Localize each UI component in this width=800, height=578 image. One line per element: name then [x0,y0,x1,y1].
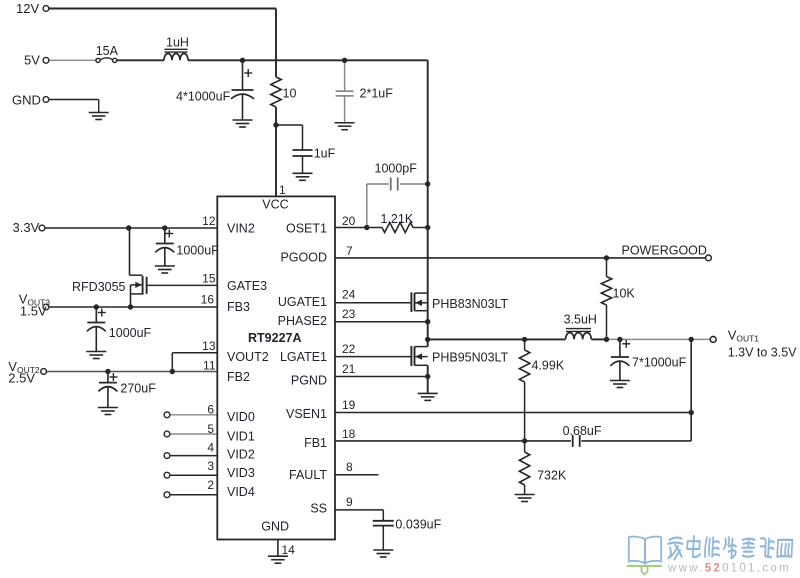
svg-text:POWERGOOD: POWERGOOD [622,244,707,258]
svg-text:GATE3: GATE3 [227,279,267,293]
svg-text:16: 16 [201,293,215,307]
svg-text:2: 2 [207,478,214,492]
svg-text:0.039uF: 0.039uF [395,518,441,532]
svg-text:1000uF: 1000uF [109,326,152,340]
svg-text:FB2: FB2 [227,370,250,384]
svg-text:2*1uF: 2*1uF [360,87,394,101]
svg-text:VOUT2: VOUT2 [227,350,269,364]
svg-text:RT9227A: RT9227A [248,331,302,345]
svg-text:3.5uH: 3.5uH [564,313,597,327]
svg-text:5V: 5V [24,53,40,68]
svg-text:7*1000uF: 7*1000uF [632,356,687,370]
svg-text:18: 18 [342,427,356,441]
svg-text:15: 15 [202,272,216,286]
svg-text:14: 14 [282,543,296,557]
svg-text:19: 19 [342,398,356,412]
svg-text:5: 5 [207,422,214,436]
svg-text:9: 9 [346,495,353,509]
svg-text:7: 7 [346,244,353,258]
svg-text:3: 3 [207,459,214,473]
svg-text:4: 4 [207,441,214,455]
svg-text:270uF: 270uF [120,382,156,396]
svg-text:GND: GND [261,520,289,534]
svg-text:GND: GND [12,93,41,108]
svg-text:2.5V: 2.5V [8,371,35,386]
svg-text:VCC: VCC [262,198,288,212]
svg-text:10K: 10K [613,287,636,301]
svg-text:732K: 732K [537,469,567,483]
svg-text:15A: 15A [96,44,119,58]
svg-text:FAULT: FAULT [289,468,327,482]
svg-text:23: 23 [342,307,356,321]
svg-text:21: 21 [342,362,356,376]
svg-text:10: 10 [283,87,297,101]
svg-text:LGATE1: LGATE1 [280,350,327,364]
svg-text:VSEN1: VSEN1 [286,407,327,421]
svg-text:24: 24 [342,288,356,302]
svg-text:VID0: VID0 [227,410,255,424]
svg-text:1uH: 1uH [166,36,189,50]
svg-text:3.3V: 3.3V [13,220,40,235]
svg-text:4*1000uF: 4*1000uF [176,90,231,104]
svg-text:13: 13 [202,339,216,353]
svg-text:1: 1 [279,183,286,197]
svg-text:1uF: 1uF [314,147,336,161]
svg-text:6: 6 [207,403,214,417]
svg-text:1.5V: 1.5V [20,304,47,319]
svg-text:8: 8 [346,460,353,474]
svg-text:VID2: VID2 [227,448,255,462]
svg-text:PHB83N03LT: PHB83N03LT [432,297,509,311]
svg-text:SS: SS [310,502,327,516]
svg-text:11: 11 [203,359,216,373]
svg-text:22: 22 [342,342,356,356]
svg-text:RFD3055: RFD3055 [72,280,126,294]
svg-text:OSET1: OSET1 [286,222,327,236]
svg-text:FB1: FB1 [304,436,327,450]
svg-text:VID3: VID3 [227,466,255,480]
svg-text:VID1: VID1 [227,430,255,444]
svg-text:1000pF: 1000pF [375,162,418,176]
svg-text:PGND: PGND [291,374,327,388]
svg-text:0.68uF: 0.68uF [563,424,602,438]
svg-text:UGATE1: UGATE1 [278,295,327,309]
svg-text:VID4: VID4 [227,485,255,499]
svg-text:20: 20 [342,214,356,228]
svg-text:4.99K: 4.99K [532,359,565,373]
svg-text:12: 12 [202,214,216,228]
svg-text:12V: 12V [16,1,39,16]
svg-text:FB3: FB3 [227,300,250,314]
svg-text:PHB95N03LT: PHB95N03LT [432,351,509,365]
svg-text:VIN2: VIN2 [227,222,255,236]
svg-text:1.3V to 3.5V: 1.3V to 3.5V [728,346,797,360]
svg-text:PGOOD: PGOOD [280,251,327,265]
svg-text:PHASE2: PHASE2 [278,314,327,328]
svg-text:1.21K: 1.21K [381,212,414,226]
svg-text:www.520101.com: www.520101.com [667,563,791,575]
svg-text:1000uF: 1000uF [176,244,219,258]
